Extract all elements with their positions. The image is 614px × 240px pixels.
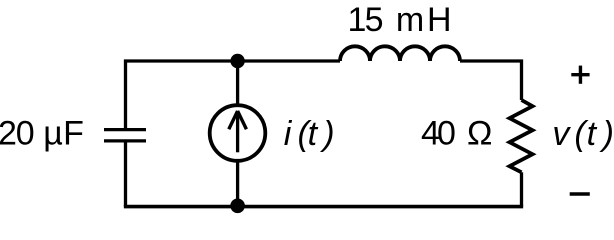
svg-text:5: 5 bbox=[365, 1, 384, 39]
svg-text:1: 1 bbox=[348, 1, 367, 39]
current source arrow barb left bbox=[229, 111, 238, 129]
wire source branch upper stub bbox=[236, 61, 239, 105]
inductor L1 bbox=[340, 46, 460, 61]
node top junction dot bbox=[230, 54, 244, 68]
svg-text:0: 0 bbox=[437, 114, 456, 152]
svg-text:): ) bbox=[319, 115, 334, 153]
svg-text:i: i bbox=[284, 115, 293, 153]
wire source branch lower stub bbox=[236, 161, 239, 207]
current source I1 circle bbox=[210, 105, 266, 161]
wire left rail lower bbox=[124, 141, 127, 207]
label 15 mH bbox=[348, 1, 452, 39]
wire bottom rail bbox=[124, 205, 523, 209]
wire top-left L (left rail upper + top rail to inductor) bbox=[126, 61, 341, 130]
current source arrow barb right bbox=[238, 111, 247, 129]
label v(t) bbox=[552, 115, 614, 153]
resistor R1 bbox=[510, 100, 533, 172]
svg-text:µ: µ bbox=[43, 114, 63, 152]
wire top-right L (top rail from inductor + right rail upper) bbox=[460, 61, 522, 100]
node bottom junction dot bbox=[230, 199, 245, 214]
svg-text:H: H bbox=[427, 1, 452, 39]
polarity minus sign bbox=[570, 192, 590, 195]
svg-text:F: F bbox=[63, 114, 84, 152]
svg-text:m: m bbox=[396, 1, 424, 39]
label i(t) bbox=[284, 115, 335, 153]
current source arrow shaft bbox=[236, 111, 239, 153]
svg-text:t: t bbox=[308, 115, 319, 153]
svg-text:): ) bbox=[599, 115, 614, 153]
label 40 Ω bbox=[421, 114, 492, 152]
polarity plus sign bbox=[571, 66, 589, 84]
svg-text:2: 2 bbox=[0, 114, 17, 152]
svg-text:Ω: Ω bbox=[467, 114, 492, 152]
capacitor C1 plates bbox=[104, 130, 146, 141]
svg-text:v: v bbox=[552, 115, 571, 153]
wire right lower stub bbox=[520, 172, 523, 206]
svg-text:t: t bbox=[587, 115, 598, 153]
label 20 µF bbox=[0, 114, 84, 152]
svg-text:0: 0 bbox=[16, 114, 35, 152]
